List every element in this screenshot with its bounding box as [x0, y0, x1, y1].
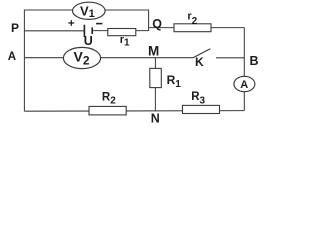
ammeter A [234, 76, 255, 91]
battery minus sign [96, 23, 102, 25]
svg-text:A: A [8, 51, 16, 63]
voltmeter V1 [73, 2, 106, 20]
wire: middle row A to switch [24, 57, 193, 59]
wire: battery row left segment [24, 30, 84, 32]
svg-text:N: N [151, 112, 160, 126]
svg-text:A: A [240, 79, 248, 91]
resistor R2 [89, 92, 126, 115]
resistor r2 [174, 10, 211, 31]
svg-text:K: K [195, 55, 204, 69]
resistor r1 [108, 29, 136, 49]
svg-text:Q: Q [152, 17, 162, 31]
wire: right bus vertical [243, 28, 245, 111]
battery plus sign [68, 20, 74, 26]
wire: battery to r1 to Q vertical [92, 30, 148, 32]
voltmeter V2 [63, 47, 100, 68]
wire: switch right stub to B bus [216, 57, 244, 59]
svg-text:U: U [84, 34, 93, 48]
wire: bottom bus [24, 110, 244, 113]
wire: M-N vertical through R1 [154, 58, 156, 111]
resistor R1 (vertical) [150, 68, 181, 90]
wire: r2 row from Q to right bus [149, 27, 245, 29]
svg-text:B: B [250, 54, 259, 68]
resistor R3 [183, 91, 220, 114]
wire: top bus from P-corner to Q-corner [24, 10, 148, 111]
svg-text:P: P [11, 21, 19, 35]
svg-text:M: M [148, 44, 159, 59]
battery U positive long plate [83, 25, 85, 37]
switch K blade [193, 49, 210, 58]
battery U negative short plate [91, 27, 93, 34]
